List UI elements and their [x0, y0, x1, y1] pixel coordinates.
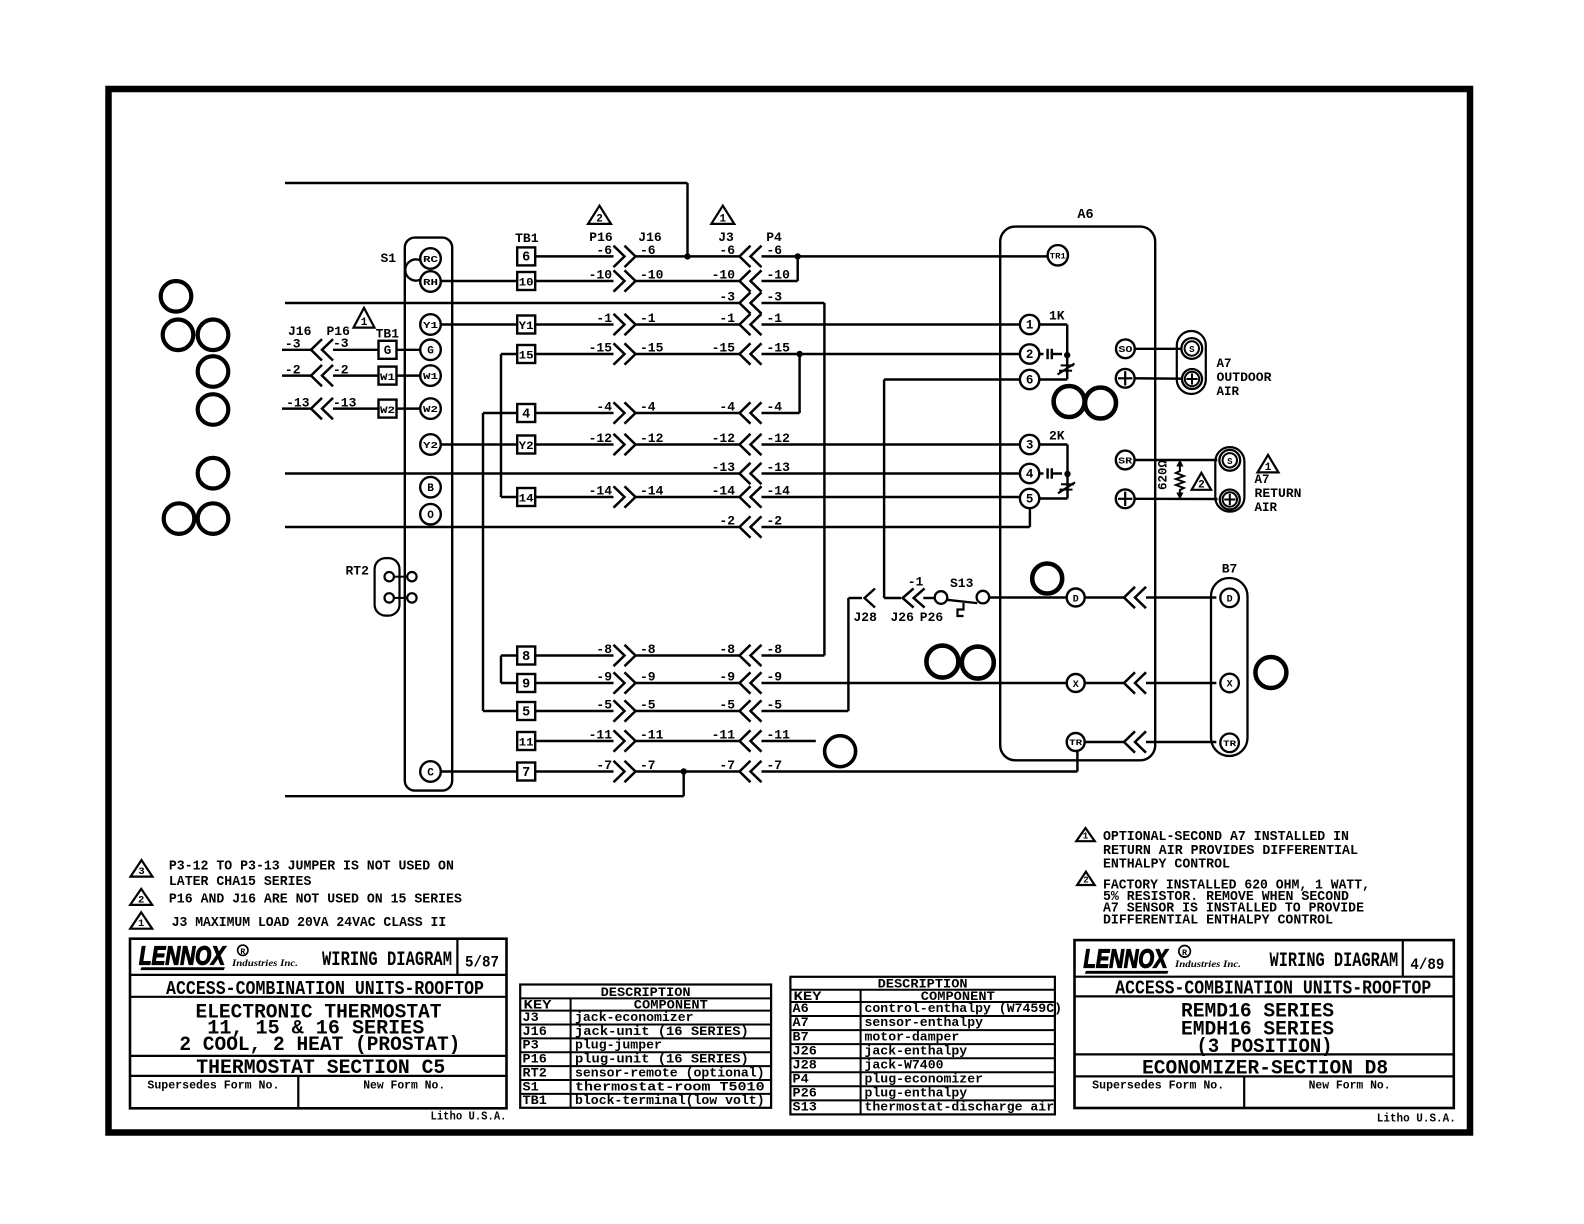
- bold circle pair A6: [1054, 386, 1116, 419]
- svg-text:-1: -1: [719, 311, 735, 326]
- sensor A7 return plus: [1220, 490, 1240, 510]
- title 11 15 16 SERIES: [207, 1018, 424, 1041]
- svg-text:-11: -11: [589, 728, 613, 743]
- terminal A6-6: [1020, 370, 1039, 389]
- svg-text:LENNOX: LENNOX: [1084, 944, 1169, 974]
- bold circle right of X: [1255, 657, 1286, 688]
- svg-text:2: 2: [1083, 876, 1088, 886]
- wire row -9 / TB1-9: [517, 670, 1066, 694]
- logo LENNOX right: [1084, 944, 1242, 974]
- note 3 text: [169, 859, 454, 890]
- svg-text:2: 2: [138, 894, 144, 906]
- svg-text:THERMOSTAT SECTION C5: THERMOSTAT SECTION C5: [196, 1057, 445, 1080]
- litho left: [431, 1110, 507, 1123]
- svg-text:-11: -11: [640, 728, 664, 743]
- svg-text:J26: J26: [891, 610, 915, 625]
- svg-text:-5: -5: [719, 698, 735, 713]
- key table left: [520, 985, 771, 1109]
- warning triangle 2 top: [588, 206, 611, 226]
- svg-text:-14: -14: [767, 484, 791, 499]
- wire W1 row: [282, 374, 420, 376]
- resistor 620ohm: [1176, 460, 1184, 500]
- svg-text:WIRING DIAGRAM: WIRING DIAGRAM: [1270, 950, 1399, 973]
- svg-text:block-terminal(low volt): block-terminal(low volt): [575, 1094, 765, 1108]
- svg-text:-11: -11: [712, 728, 736, 743]
- svg-text:J28: J28: [793, 1058, 817, 1072]
- label J26: [891, 610, 915, 625]
- svg-text:Industries Inc.: Industries Inc.: [231, 959, 298, 969]
- svg-text:thermostat-room T5010: thermostat-room T5010: [575, 1080, 765, 1094]
- svg-text:R: R: [240, 948, 245, 957]
- svg-text:2: 2: [596, 213, 603, 225]
- svg-text:-10: -10: [589, 268, 613, 283]
- svg-text:jack-economizer: jack-economizer: [575, 1011, 694, 1025]
- svg-text:W2: W2: [380, 405, 395, 417]
- wire S13 to D: [989, 596, 1066, 598]
- svg-text:ENTHALPY CONTROL: ENTHALPY CONTROL: [1103, 857, 1230, 873]
- svg-text:-7: -7: [596, 758, 612, 773]
- label -3 G right: [333, 336, 349, 351]
- svg-text:11: 11: [519, 737, 535, 749]
- svg-text:-8: -8: [640, 642, 656, 657]
- svg-text:Industries Inc.: Industries Inc.: [1174, 960, 1241, 970]
- svg-text:RC: RC: [423, 254, 438, 265]
- junction dot -7: [681, 768, 687, 774]
- wire row -12 / TB1-Y2: [441, 431, 1019, 455]
- label J28: [854, 610, 878, 625]
- punch circle L8: [198, 503, 229, 534]
- svg-text:-10: -10: [767, 268, 791, 283]
- svg-text:AIR: AIR: [1217, 385, 1240, 399]
- terminal Y1 circle: [420, 314, 441, 335]
- litho right: [1377, 1113, 1456, 1126]
- svg-text:-12: -12: [640, 431, 664, 446]
- wire 15 to 14 left link: [501, 354, 517, 497]
- svg-text:1: 1: [719, 213, 726, 225]
- note 1 text: [172, 915, 447, 931]
- wire W2 row: [282, 407, 420, 409]
- punch circle L3: [198, 320, 229, 351]
- bold circle above D: [1032, 564, 1062, 594]
- warning triangle 1 left: [354, 308, 375, 329]
- sensor A7 return capsule: [1215, 447, 1244, 512]
- label 620 ohm: [1157, 460, 1171, 491]
- svg-text:J26: J26: [793, 1044, 817, 1058]
- svg-text:-6: -6: [640, 243, 656, 258]
- svg-text:-3: -3: [767, 290, 783, 305]
- svg-text:P26: P26: [793, 1086, 817, 1100]
- title REMD16: [1181, 1001, 1334, 1024]
- svg-text:A7: A7: [1217, 357, 1232, 371]
- note triangle 3: [131, 860, 153, 878]
- svg-text:A7: A7: [1255, 473, 1270, 487]
- title date 4/89 right: [1410, 956, 1444, 974]
- wire plus to plus outdoor: [1135, 377, 1182, 380]
- connector J26/P26: [903, 588, 925, 607]
- wire plus to plus return: [1135, 498, 1218, 501]
- svg-text:5/87: 5/87: [465, 954, 499, 972]
- svg-text:S: S: [1227, 457, 1233, 467]
- wire row -6 / TB1-6: [517, 243, 1047, 267]
- svg-text:plug-unit (16 SERIES): plug-unit (16 SERIES): [575, 1053, 749, 1067]
- title EMDH16: [1181, 1019, 1334, 1042]
- terminal Y2 circle: [420, 434, 441, 455]
- svg-text:Y1: Y1: [423, 320, 438, 331]
- label A7 outdoor: [1217, 357, 1273, 399]
- label -3 G left: [285, 337, 301, 352]
- label 2K: [1049, 428, 1065, 443]
- control A6 box: [1000, 227, 1155, 761]
- svg-text:-7: -7: [719, 758, 735, 773]
- svg-text:-7: -7: [767, 758, 783, 773]
- svg-text:S13: S13: [793, 1101, 817, 1115]
- title 3 POSITION: [1197, 1036, 1333, 1059]
- label S13: [950, 576, 974, 591]
- trimmer 2K wiring: [1039, 445, 1067, 499]
- svg-text:-14: -14: [712, 484, 736, 499]
- title ACCESS right: [1115, 978, 1431, 1000]
- svg-text:thermostat-discharge air: thermostat-discharge air: [865, 1101, 1055, 1115]
- trimmer 1K wiring: [1039, 325, 1067, 380]
- svg-text:D: D: [1227, 595, 1233, 606]
- junction dot -6/top: [684, 253, 690, 259]
- jumper RC-RH arc: [405, 259, 420, 280]
- trimmer 1K arrow: [1058, 364, 1075, 375]
- wire row -7 / TB1-7: [441, 752, 1077, 783]
- punch circle L4: [198, 356, 229, 387]
- svg-text:-3: -3: [285, 337, 301, 352]
- wire row -5 / TB1-5: [517, 598, 848, 722]
- svg-text:SR: SR: [1118, 455, 1132, 466]
- terminal A6-4: [1020, 464, 1039, 483]
- svg-text:P4: P4: [766, 230, 782, 245]
- svg-text:Supersedes Form No.: Supersedes Form No.: [1092, 1080, 1224, 1093]
- label J16 top: [638, 230, 662, 245]
- svg-text:9: 9: [522, 677, 530, 692]
- svg-text:S13: S13: [950, 576, 974, 591]
- svg-text:Litho U.S.A.: Litho U.S.A.: [1377, 1113, 1456, 1126]
- svg-text:J3 MAXIMUM LOAD 20VA 24VAC CLA: J3 MAXIMUM LOAD 20VA 24VAC CLASS II: [172, 915, 447, 931]
- terminal A6-2: [1020, 344, 1039, 363]
- label J16 left: [288, 324, 312, 339]
- switch S13: [935, 591, 990, 616]
- svg-text:-1: -1: [908, 575, 924, 590]
- svg-text:-9: -9: [596, 670, 612, 685]
- svg-text:control-enthalpy (W7459C): control-enthalpy (W7459C): [865, 1002, 1063, 1016]
- title supersedes right: [1092, 1080, 1390, 1093]
- connector P16-2: [311, 365, 333, 386]
- wire 4 to 5 left link: [483, 413, 517, 711]
- svg-text:-3: -3: [333, 336, 349, 351]
- svg-text:1: 1: [1026, 318, 1034, 332]
- svg-text:-8: -8: [719, 642, 735, 657]
- terminal RC: [420, 248, 441, 269]
- punch circle L7: [164, 503, 195, 534]
- svg-text:-13: -13: [286, 395, 310, 410]
- svg-text:plug-economizer: plug-economizer: [865, 1072, 984, 1086]
- svg-text:jack-unit (16 SERIES): jack-unit (16 SERIES): [575, 1025, 749, 1039]
- svg-text:sensor-remote (optional): sensor-remote (optional): [575, 1066, 765, 1080]
- svg-text:A7: A7: [793, 1016, 809, 1030]
- svg-text:SO: SO: [1118, 344, 1132, 355]
- label B7: [1222, 562, 1238, 577]
- sensor RT2 body: [375, 558, 400, 616]
- svg-text:TR: TR: [1223, 739, 1237, 749]
- label P26: [920, 610, 944, 625]
- svg-text:1: 1: [1083, 832, 1089, 842]
- svg-text:RT2: RT2: [346, 564, 370, 579]
- svg-text:J16: J16: [523, 1025, 547, 1039]
- wire row -15 / TB1-15: [517, 341, 1019, 365]
- svg-text:1: 1: [138, 918, 144, 930]
- svg-text:Y2: Y2: [519, 441, 534, 453]
- svg-text:(3 POSITION): (3 POSITION): [1197, 1036, 1333, 1059]
- wire row -8 / TB1-8: [517, 642, 824, 666]
- svg-text:TB1: TB1: [523, 1094, 547, 1108]
- terminal G circle: [420, 340, 441, 361]
- svg-text:D: D: [1073, 594, 1079, 605]
- svg-text:R: R: [1182, 948, 1188, 958]
- svg-text:AIR: AIR: [1255, 501, 1278, 515]
- label P16 left: [327, 324, 351, 339]
- label J3 top: [718, 230, 734, 245]
- svg-text:A6: A6: [1077, 208, 1093, 223]
- wire row -14 / TB1-14: [517, 484, 1019, 508]
- svg-text:4/89: 4/89: [1410, 956, 1444, 974]
- svg-text:RH: RH: [423, 277, 438, 288]
- title ECONOMIZER-SECTION D8: [1142, 1057, 1388, 1080]
- svg-text:620Ω: 620Ω: [1157, 460, 1171, 491]
- wire row -4 / TB1-4: [517, 354, 799, 424]
- svg-text:Litho U.S.A.: Litho U.S.A.: [431, 1110, 507, 1123]
- wire row -1 / TB1-Y1: [441, 311, 1019, 335]
- svg-text:-1: -1: [596, 311, 612, 326]
- terminal SR: [1116, 451, 1135, 470]
- svg-text:A6: A6: [793, 1002, 809, 1016]
- terminal A6-3: [1020, 435, 1039, 454]
- svg-text:-13: -13: [333, 395, 357, 410]
- svg-text:DIFFERENTIAL ENTHALPY CONTROL: DIFFERENTIAL ENTHALPY CONTROL: [1103, 912, 1333, 928]
- wire SR to S: [1135, 459, 1218, 461]
- svg-text:W2: W2: [423, 404, 438, 415]
- warning triangle 1 top: [711, 206, 734, 226]
- wire row -13 mid: [712, 460, 1019, 484]
- title ACCESS left: [166, 978, 484, 1000]
- terminal C circle: [420, 761, 441, 782]
- svg-text:sensor-enthalpy: sensor-enthalpy: [865, 1016, 984, 1030]
- terminal A6-5: [1020, 489, 1039, 508]
- svg-text:RETURN: RETURN: [1255, 487, 1302, 501]
- svg-text:X: X: [1227, 680, 1233, 691]
- wire P26 to S13: [923, 597, 934, 599]
- svg-text:-12: -12: [589, 431, 613, 446]
- svg-text:B7: B7: [793, 1030, 809, 1044]
- svg-text:P3: P3: [523, 1039, 539, 1053]
- bold circle near -11: [825, 736, 856, 767]
- svg-text:-9: -9: [767, 670, 783, 685]
- svg-text:-5: -5: [596, 698, 612, 713]
- title WIRING DIAGRAM right: [1270, 950, 1399, 973]
- svg-text:-15: -15: [640, 341, 664, 356]
- junction dot 2K: [1064, 471, 1070, 477]
- wire row -11 / TB1-11: [517, 728, 816, 752]
- svg-text:15: 15: [519, 350, 534, 362]
- svg-text:2 COOL, 2 HEAT (PROSTAT): 2 COOL, 2 HEAT (PROSTAT): [179, 1034, 460, 1057]
- connector P16-13: [311, 398, 333, 419]
- sensor A7 outdoor capsule: [1177, 331, 1206, 394]
- svg-text:2: 2: [1198, 479, 1205, 491]
- label S1: [381, 251, 397, 266]
- svg-text:-10: -10: [640, 268, 664, 283]
- motor B7 D: [1220, 589, 1239, 608]
- svg-text:jack-enthalpy: jack-enthalpy: [865, 1044, 968, 1058]
- motor B7 X: [1220, 674, 1239, 693]
- svg-text:ACCESS-COMBINATION UNITS-ROOFT: ACCESS-COMBINATION UNITS-ROOFTOP: [1115, 978, 1431, 1000]
- svg-text:-3: -3: [719, 290, 735, 305]
- terminal A6-X: [1067, 674, 1085, 692]
- punch circle L1: [161, 281, 192, 312]
- svg-text:-4: -4: [640, 400, 656, 415]
- svg-text:-13: -13: [712, 460, 736, 475]
- svg-text:-12: -12: [712, 431, 736, 446]
- label -1 S13: [908, 575, 924, 590]
- svg-text:P16: P16: [523, 1053, 547, 1067]
- wire TR to B7: [1085, 741, 1217, 743]
- wire net-7 bottom feed: [285, 772, 684, 797]
- svg-text:-6: -6: [596, 243, 612, 258]
- junction dot -6/-10: [795, 253, 801, 259]
- svg-text:ACCESS-COMBINATION UNITS-ROOFT: ACCESS-COMBINATION UNITS-ROOFTOP: [166, 978, 484, 1000]
- terminal A6 plus-ret: [1116, 489, 1135, 508]
- svg-text:-2: -2: [285, 362, 301, 377]
- svg-text:3: 3: [1026, 438, 1034, 452]
- motor B7 capsule: [1211, 578, 1248, 756]
- svg-text:-10: -10: [712, 268, 736, 283]
- terminal TR1: [1048, 245, 1068, 265]
- wire terminal6 to S13: [884, 380, 1020, 599]
- note triangle 1 right: [1076, 828, 1095, 842]
- connector J16-3/P16-3: [311, 339, 333, 360]
- svg-text:-7: -7: [640, 758, 656, 773]
- svg-text:-4: -4: [719, 400, 735, 415]
- warning triangle 2 return: [1192, 473, 1212, 492]
- title WIRING DIAGRAM left: [322, 949, 452, 972]
- svg-text:6: 6: [522, 251, 530, 266]
- svg-text:plug-enthalpy: plug-enthalpy: [865, 1086, 968, 1100]
- svg-text:P16: P16: [589, 230, 613, 245]
- svg-text:4: 4: [522, 407, 530, 422]
- label P16 top: [589, 230, 613, 245]
- svg-text:-6: -6: [767, 243, 783, 258]
- svg-text:2: 2: [1026, 348, 1034, 362]
- terminal W2 circle: [420, 398, 441, 419]
- svg-text:-15: -15: [767, 341, 791, 356]
- svg-text:New Form No.: New Form No.: [1309, 1080, 1391, 1093]
- svg-text:Supersedes Form No.: Supersedes Form No.: [147, 1079, 279, 1092]
- svg-text:S: S: [1189, 345, 1195, 355]
- label -13 W2 left: [286, 395, 310, 410]
- svg-text:-9: -9: [719, 670, 735, 685]
- punch circle L5: [198, 394, 229, 425]
- punch circle L6: [198, 458, 229, 489]
- note 2 text: [169, 892, 462, 908]
- svg-text:-5: -5: [767, 698, 783, 713]
- svg-text:14: 14: [519, 493, 535, 505]
- terminal A6-D: [1067, 589, 1085, 607]
- svg-text:G: G: [384, 344, 392, 358]
- svg-text:RT2: RT2: [523, 1066, 547, 1080]
- svg-text:2K: 2K: [1049, 428, 1065, 443]
- sensor A7 outdoor plus: [1182, 369, 1202, 389]
- svg-text:ECONOMIZER-SECTION D8: ECONOMIZER-SECTION D8: [1142, 1057, 1388, 1080]
- terminal SO: [1116, 339, 1135, 358]
- motor B7 TR: [1220, 734, 1239, 753]
- wire G row: [282, 349, 420, 351]
- bold circle pair below: [926, 646, 993, 679]
- wire 8 to 9 left link: [501, 656, 517, 684]
- svg-text:-14: -14: [589, 484, 613, 499]
- sensor A7 return S: [1219, 450, 1240, 471]
- svg-text:G: G: [427, 346, 434, 358]
- border frame: [109, 89, 1471, 1133]
- junction dot 1K: [1064, 352, 1070, 358]
- svg-text:-9: -9: [640, 670, 656, 685]
- punch circle L2: [163, 320, 194, 351]
- wire net-2 feed: [285, 526, 740, 528]
- block W2 square: [379, 400, 397, 418]
- svg-text:TB1: TB1: [376, 327, 400, 342]
- svg-text:W1: W1: [380, 372, 395, 384]
- wire row -3 mid: [719, 290, 824, 656]
- svg-text:W1: W1: [423, 371, 438, 382]
- wire row -2 mid: [719, 508, 1030, 538]
- logo LENNOX left: [139, 941, 298, 971]
- title 2 COOL 2 HEAT: [179, 1034, 460, 1057]
- RT2 contact pins: [385, 572, 417, 603]
- note right 1 text: [1103, 829, 1358, 873]
- svg-text:5: 5: [1026, 492, 1034, 506]
- title block right frame: [1075, 940, 1454, 1108]
- terminal A6-TR: [1067, 733, 1085, 751]
- connector TR chevron: [1124, 731, 1146, 752]
- trimmer 2K arrow: [1058, 482, 1075, 493]
- svg-text:-13: -13: [767, 460, 791, 475]
- svg-text:C: C: [427, 767, 434, 779]
- label A6: [1077, 208, 1093, 223]
- connector D chevron: [1124, 587, 1146, 608]
- terminal B circle: [420, 477, 441, 498]
- svg-text:TR: TR: [1069, 738, 1083, 748]
- svg-text:OUTDOOR: OUTDOOR: [1217, 371, 1273, 385]
- svg-text:P3-12 TO P3-13 JUMPER IS NOT U: P3-12 TO P3-13 JUMPER IS NOT USED ON: [169, 859, 454, 875]
- svg-text:-2: -2: [767, 514, 783, 529]
- thermostat S1 box: [405, 238, 452, 791]
- svg-text:J3: J3: [718, 230, 734, 245]
- svg-text:5: 5: [522, 705, 530, 720]
- svg-text:-11: -11: [767, 728, 791, 743]
- label -13 W2 right: [333, 395, 357, 410]
- wire SO to S: [1135, 348, 1182, 350]
- title block left frame: [130, 939, 507, 1109]
- svg-text:-1: -1: [767, 311, 783, 326]
- svg-text:plug-jumper: plug-jumper: [575, 1039, 662, 1053]
- svg-text:6: 6: [1026, 373, 1034, 387]
- svg-text:-15: -15: [712, 341, 736, 356]
- wire D to B7: [1085, 596, 1217, 598]
- svg-text:J16: J16: [638, 230, 662, 245]
- svg-text:-6: -6: [719, 243, 735, 258]
- svg-text:-12: -12: [767, 431, 791, 446]
